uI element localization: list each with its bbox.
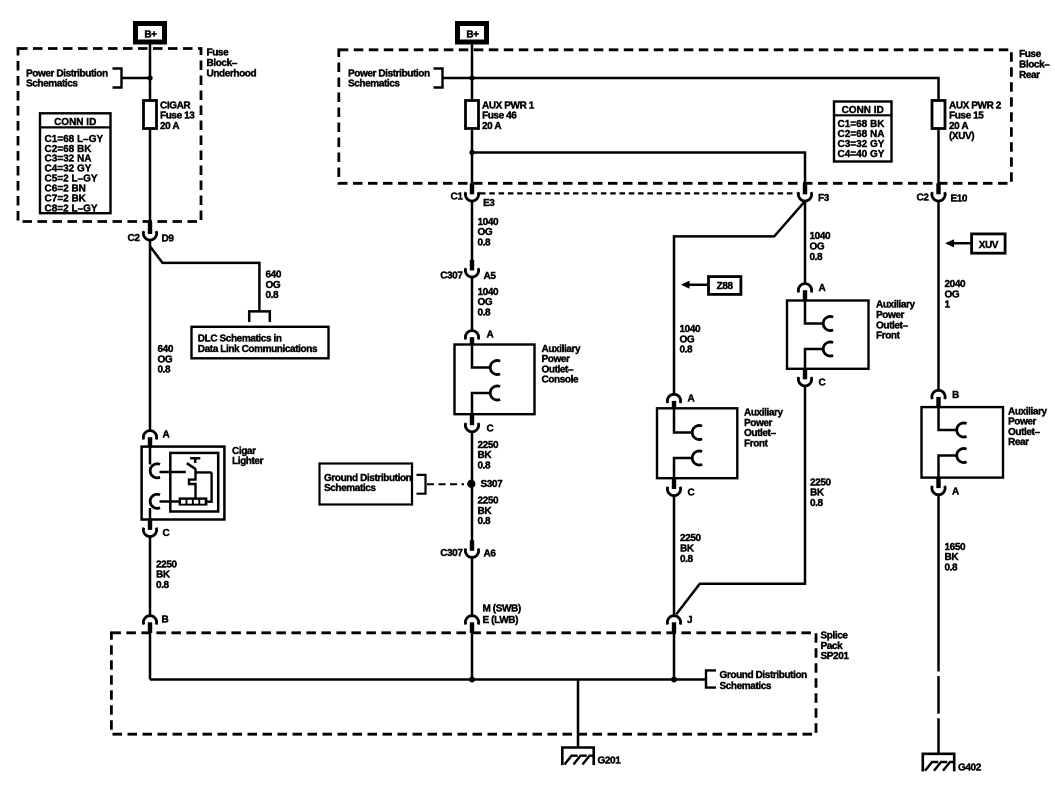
svg-text:C1=68 L–GYC2=68 BKC3=32 NAC4=3: C1=68 L–GYC2=68 BKC3=32 NAC4=32 GYC5=2 L… bbox=[45, 134, 104, 215]
rear outlet entry wire bbox=[939, 407, 957, 430]
cigar lighter terminal 2 stub bbox=[160, 500, 179, 502]
connector C2/D9 pin bbox=[148, 222, 152, 234]
svg-text:A: A bbox=[163, 429, 170, 440]
svg-text:1040OG0.8: 1040OG0.8 bbox=[810, 231, 831, 263]
svg-text:A6: A6 bbox=[484, 549, 497, 560]
connector C console cup bbox=[465, 423, 478, 432]
svg-text:FuseBlock–Underhood: FuseBlock–Underhood bbox=[207, 48, 257, 80]
svg-text:C307: C307 bbox=[440, 548, 463, 559]
fuse AUX PWR 2 Fuse 15 bbox=[932, 101, 945, 129]
svg-text:A: A bbox=[487, 330, 494, 341]
connector C2/E10 pin bbox=[936, 183, 940, 194]
svg-text:AuxiliaryPowerOutlet–Console: AuxiliaryPowerOutlet–Console bbox=[542, 344, 581, 386]
auxiliary power outlet console box bbox=[455, 345, 535, 415]
connector B splice pack cup bbox=[143, 616, 156, 625]
wire split to DLC branch bbox=[150, 246, 259, 311]
cigar lighter exit wire bbox=[149, 508, 152, 520]
svg-text:FuseBlock–Rear: FuseBlock–Rear bbox=[1019, 49, 1050, 81]
svg-text:C1: C1 bbox=[451, 192, 464, 203]
front-left outlet terminal 1 cup bbox=[692, 426, 702, 440]
svg-text:640OG0.8: 640OG0.8 bbox=[158, 344, 174, 376]
svg-text:XUV: XUV bbox=[979, 240, 999, 251]
svg-text:CONN ID: CONN ID bbox=[842, 105, 884, 116]
wire bracket to B+ feed bbox=[122, 77, 151, 80]
wire F3 straight down (right branch) bbox=[804, 201, 807, 284]
fuse AUX PWR 1 Fuse 46 bbox=[466, 101, 479, 129]
console outlet terminal 1 cup bbox=[490, 361, 500, 375]
svg-text:1040OG0.8: 1040OG0.8 bbox=[680, 324, 701, 356]
connector F3 pin bbox=[803, 183, 807, 194]
connector C cigar cup bbox=[143, 528, 156, 537]
CONN ID table (rear) bbox=[834, 102, 892, 162]
svg-text:A: A bbox=[819, 283, 826, 294]
connector C307/A5 cup bbox=[465, 268, 478, 277]
svg-text:M (SWB)E (LWB): M (SWB)E (LWB) bbox=[483, 603, 521, 626]
fuse CIGAR Fuse 13 bbox=[144, 101, 157, 129]
rear outlet terminal 1 cup bbox=[957, 423, 967, 437]
wire fuse to connector C2/D9 bbox=[149, 129, 152, 223]
cigar lighter bimetal zigzag bbox=[189, 469, 196, 498]
wire console to C307/A6 bbox=[471, 432, 474, 541]
svg-text:C: C bbox=[819, 378, 826, 389]
connector M/E splice pack cup bbox=[465, 616, 478, 625]
svg-text:C: C bbox=[688, 487, 695, 498]
wire front-right down to splice J bbox=[676, 386, 805, 614]
svg-text:Power DistributionSchematics: Power DistributionSchematics bbox=[348, 68, 430, 89]
svg-text:CigarLighter: CigarLighter bbox=[232, 446, 264, 467]
wire B+ to CIGAR fuse bbox=[149, 45, 152, 101]
connector A console cup bbox=[465, 331, 478, 340]
svg-text:C: C bbox=[163, 528, 170, 539]
cigar lighter switch arm bbox=[187, 463, 196, 469]
connector C front-right cup bbox=[798, 377, 811, 386]
svg-text:2250BK0.8: 2250BK0.8 bbox=[478, 440, 499, 472]
connector C front-right pin bbox=[803, 369, 807, 380]
net label box Z88 bbox=[709, 277, 741, 295]
wire C307/A6 to splice pack bbox=[471, 557, 474, 616]
svg-text:2250BK0.8: 2250BK0.8 bbox=[156, 559, 177, 591]
cigar lighter switch fixed contact bbox=[190, 458, 200, 463]
connector C1/E3 cup bbox=[465, 192, 478, 201]
ground feeder wire from bus bbox=[577, 680, 580, 748]
connector C front-left cup bbox=[667, 487, 680, 496]
connector B splice pack pin bbox=[148, 622, 152, 633]
wire top feed rail to AUX PWR 2 bbox=[443, 78, 939, 101]
console outlet exit wire bbox=[472, 393, 490, 414]
console outlet entry wire bbox=[472, 345, 490, 368]
svg-text:S307: S307 bbox=[481, 479, 504, 490]
cigar lighter terminal 1 cup bbox=[150, 464, 160, 478]
wire F3 split to front outlet (left branch) bbox=[674, 201, 805, 395]
svg-text:AuxiliaryPowerOutlet–Front: AuxiliaryPowerOutlet–Front bbox=[876, 300, 915, 342]
wire C307/A5 to console outlet bbox=[471, 277, 474, 331]
auxiliary power outlet front (right) box bbox=[787, 301, 869, 369]
svg-text:C2: C2 bbox=[917, 193, 930, 204]
connector M/E splice pack pin bbox=[470, 622, 474, 633]
front-right outlet terminal 2 cup bbox=[823, 342, 833, 356]
wire front-left to splice J bbox=[673, 496, 676, 617]
wire cigar to splice pack bbox=[149, 537, 152, 617]
console outlet terminal 2 cup bbox=[490, 386, 500, 400]
cigar lighter inner element box bbox=[170, 453, 218, 512]
splice S307 bbox=[467, 480, 475, 488]
cigar lighter link to right rail bbox=[196, 471, 212, 473]
connector B rear cup bbox=[932, 390, 945, 399]
junction dot (rear feed) bbox=[469, 75, 474, 80]
svg-text:B+: B+ bbox=[466, 29, 479, 40]
bracket to Power Distribution Schematics (rear) bbox=[434, 69, 443, 88]
front-right outlet entry wire bbox=[805, 301, 823, 324]
svg-text:AUX PWR 1Fuse 4620 A: AUX PWR 1Fuse 4620 A bbox=[482, 100, 535, 132]
wire rear outlet to ground (solid) bbox=[937, 495, 940, 634]
svg-text:AUX PWR 2Fuse 1520 A(XUV): AUX PWR 2Fuse 1520 A(XUV) bbox=[949, 100, 1002, 142]
svg-text:C: C bbox=[487, 423, 494, 434]
svg-text:Ground DistributionSchematics: Ground DistributionSchematics bbox=[720, 670, 808, 692]
feeder wire J into splice bbox=[673, 633, 676, 680]
svg-text:2040OG1: 2040OG1 bbox=[945, 279, 966, 311]
svg-text:A5: A5 bbox=[484, 271, 497, 282]
arrow to XUV bbox=[945, 239, 954, 247]
wire C2/E10 to rear outlet bbox=[937, 201, 940, 391]
svg-text:1040OG0.8: 1040OG0.8 bbox=[478, 287, 499, 319]
ground G201 bbox=[561, 748, 595, 766]
cigar lighter right rail bbox=[207, 472, 211, 501]
auxiliary power outlet rear box bbox=[922, 407, 1004, 478]
fuse block rear (dashed box) bbox=[339, 50, 1012, 184]
ground G402 bbox=[922, 754, 956, 772]
svg-text:2250BK0.8: 2250BK0.8 bbox=[680, 533, 701, 565]
wire connector D9 to cigar lighter bbox=[149, 240, 152, 431]
feeder wire M/E into splice bbox=[471, 633, 474, 680]
battery feed B+ (rear) bbox=[458, 24, 487, 43]
svg-text:CONN ID: CONN ID bbox=[54, 117, 96, 128]
connector C307/A5 pin bbox=[470, 260, 474, 271]
bracket to Power Distribution Schematics (underhood) bbox=[113, 69, 122, 88]
feeder wire B into splice bbox=[149, 633, 152, 680]
svg-text:G402: G402 bbox=[958, 763, 982, 774]
bracket to DLC schematics bbox=[249, 311, 270, 322]
wire AUX PWR 1 to connector C1 bbox=[471, 129, 474, 184]
svg-text:2250BK0.8: 2250BK0.8 bbox=[478, 496, 499, 528]
battery feed B+ (underhood) bbox=[136, 24, 165, 43]
svg-text:1040OG0.8: 1040OG0.8 bbox=[478, 217, 499, 249]
svg-text:F3: F3 bbox=[818, 193, 830, 204]
svg-text:E10: E10 bbox=[951, 193, 968, 204]
connector A front-right cup bbox=[798, 284, 811, 293]
CONN ID table (underhood) bbox=[40, 113, 111, 214]
connector J splice pack cup bbox=[667, 616, 680, 625]
front-left outlet exit wire bbox=[674, 458, 692, 478]
junction dot J on bus bbox=[671, 677, 677, 683]
cigar lighter entry wire bbox=[149, 447, 152, 465]
cigar lighter terminal 2 cup bbox=[150, 494, 160, 508]
svg-text:Z88: Z88 bbox=[717, 281, 734, 292]
connector A front-left cup bbox=[667, 394, 680, 403]
svg-text:J: J bbox=[687, 615, 692, 626]
connector C console pin bbox=[470, 414, 474, 425]
cigar lighter terminal 1 stub bbox=[160, 471, 186, 473]
DLC Schematics box bbox=[192, 327, 329, 359]
svg-text:AuxiliaryPowerOutlet–Rear: AuxiliaryPowerOutlet–Rear bbox=[1008, 406, 1047, 448]
svg-text:C307: C307 bbox=[440, 271, 463, 282]
cigar lighter heating element bbox=[179, 497, 208, 505]
connector A cigar lighter cup bbox=[143, 431, 156, 440]
connector A rear pin bbox=[936, 478, 940, 489]
fuse block underhood (dashed box) bbox=[18, 49, 201, 222]
connector A cigar lighter pin bbox=[148, 437, 152, 446]
net label box XUV bbox=[972, 234, 1006, 253]
connector C1/E3 pin bbox=[470, 183, 474, 194]
connector F3 cup bbox=[798, 192, 811, 201]
svg-text:A: A bbox=[688, 394, 695, 405]
junction dot (underhood feed) bbox=[147, 75, 152, 80]
connector A front-right pin bbox=[803, 290, 807, 300]
branch rail to F3 bbox=[472, 153, 805, 184]
svg-text:AuxiliaryPowerOutlet–Front: AuxiliaryPowerOutlet–Front bbox=[744, 408, 783, 450]
connector C cigar pin bbox=[148, 520, 152, 530]
connector C307/A6 cup bbox=[465, 549, 478, 558]
arrow to Z88 bbox=[681, 281, 690, 289]
svg-text:B: B bbox=[952, 390, 959, 401]
svg-text:2250BK0.8: 2250BK0.8 bbox=[810, 477, 831, 509]
svg-text:B: B bbox=[162, 615, 169, 626]
bracket to Ground Distribution Schematics (splice) bbox=[706, 670, 716, 687]
connector C2/D9 cup bbox=[143, 231, 156, 240]
front-left outlet entry wire bbox=[674, 408, 692, 432]
svg-text:E3: E3 bbox=[483, 198, 495, 209]
connector C2/E10 cup bbox=[932, 192, 945, 201]
dashed wire bracket to splice S307 bbox=[427, 483, 464, 485]
bracket to Ground Distribution Schematics (S307) bbox=[417, 475, 426, 494]
wire C1 to C307/A5 bbox=[471, 201, 474, 260]
front-right outlet exit wire bbox=[805, 349, 823, 369]
connector face line C1 to F3 (dotted) bbox=[480, 192, 797, 194]
connector A rear cup bbox=[932, 486, 945, 495]
cigar lighter outer box bbox=[142, 447, 225, 520]
rear outlet exit wire bbox=[939, 456, 957, 478]
junction dot (branch rail) bbox=[469, 150, 474, 155]
splice pack SP201 (dashed box) bbox=[111, 633, 816, 734]
connector C307/A6 pin bbox=[470, 540, 474, 551]
svg-text:Power DistributionSchematics: Power DistributionSchematics bbox=[26, 68, 108, 89]
front-right outlet terminal 1 cup bbox=[823, 317, 833, 331]
svg-text:A: A bbox=[952, 486, 959, 497]
svg-text:Ground DistributionSchematics: Ground DistributionSchematics bbox=[324, 473, 412, 494]
svg-text:CIGARFuse 1320 A: CIGARFuse 1320 A bbox=[160, 100, 195, 132]
svg-text:C1=68 BKC2=68 NAC3=32 GYC4=40: C1=68 BKC2=68 NAC3=32 GYC4=40 GY bbox=[838, 119, 886, 160]
junction dot M/E on bus bbox=[469, 677, 475, 683]
svg-text:G201: G201 bbox=[598, 756, 622, 767]
svg-text:B+: B+ bbox=[144, 29, 157, 40]
front-left outlet terminal 2 cup bbox=[692, 451, 702, 465]
svg-text:D9: D9 bbox=[162, 233, 175, 244]
wire AUX PWR 2 to connector C2/E10 bbox=[937, 129, 940, 184]
connector C front-left pin bbox=[672, 478, 676, 489]
connector A front-left pin bbox=[672, 401, 676, 408]
splice pack bus wire bbox=[150, 678, 706, 681]
svg-text:DLC Schematics inData Link Com: DLC Schematics inData Link Communication… bbox=[198, 334, 318, 355]
Ground Distribution Schematics box (S307) bbox=[320, 464, 413, 505]
svg-text:SplicePackSP201: SplicePackSP201 bbox=[821, 631, 850, 663]
connector B rear pin bbox=[936, 397, 940, 407]
svg-text:C2: C2 bbox=[128, 233, 141, 244]
svg-text:640OG0.8: 640OG0.8 bbox=[266, 270, 282, 302]
connector J splice pack pin bbox=[672, 622, 676, 633]
connector A console pin bbox=[470, 337, 474, 344]
svg-text:1650BK0.8: 1650BK0.8 bbox=[945, 542, 966, 574]
wire B+ to AUX PWR 1 fuse bbox=[471, 45, 474, 101]
auxiliary power outlet front (left) box bbox=[657, 408, 737, 478]
rear outlet terminal 2 cup bbox=[957, 449, 967, 463]
wire rear outlet to ground (dashed XUV) bbox=[937, 634, 940, 754]
